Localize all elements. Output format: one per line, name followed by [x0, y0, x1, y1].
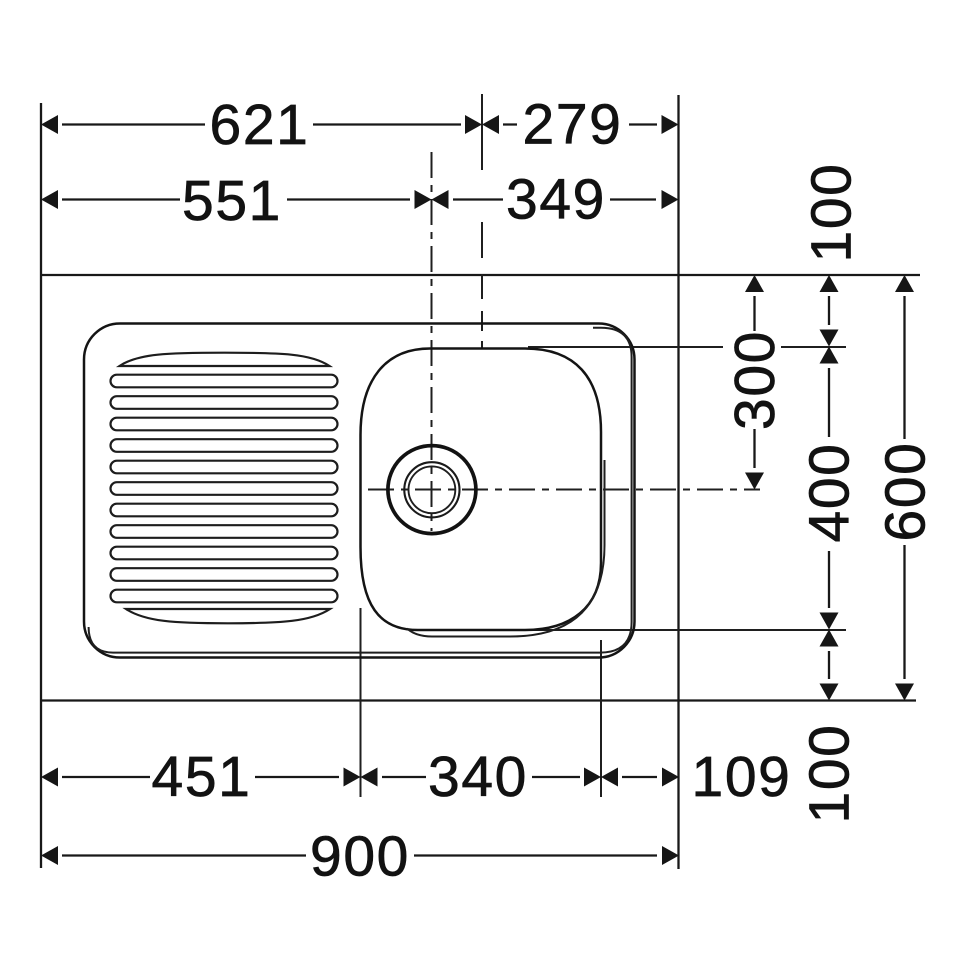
- dimension line 621: [62, 123, 461, 125]
- drainer rib 5: [111, 439, 338, 452]
- drainer rib 13 (arc bottom): [126, 609, 330, 623]
- svg-text:279: 279: [523, 93, 623, 157]
- arrowheads horizontal dims: [41, 115, 58, 134]
- svg-text:300: 300: [723, 330, 787, 430]
- drainer rib 2: [111, 375, 338, 388]
- drain outer circle: [388, 446, 476, 534]
- extension line x=482 (621/279 split): [481, 94, 483, 348]
- vertical centerline: [431, 152, 433, 531]
- horizontal centerline: [368, 489, 760, 491]
- svg-text:100: 100: [798, 724, 862, 824]
- dimension line 100 bottom: [828, 651, 830, 679]
- dimension line 451: [62, 776, 339, 778]
- extension line bowl bottom edge: [500, 629, 846, 631]
- dimension line 349: [453, 198, 656, 200]
- dimension line 340: [382, 776, 580, 778]
- arrowheads vertical dims: [745, 275, 764, 292]
- dimension line 900: [62, 854, 657, 856]
- svg-text:900: 900: [310, 825, 410, 889]
- worktop top edge line: [41, 274, 920, 276]
- sink outline: [84, 324, 635, 658]
- sink inner rim line: [89, 328, 632, 653]
- extension line bowl left: [360, 608, 362, 797]
- svg-text:600: 600: [874, 442, 938, 542]
- dimension line 551: [62, 198, 410, 200]
- svg-text:451: 451: [152, 745, 252, 809]
- worktop bottom edge line: [41, 699, 916, 701]
- dimension line 279: [503, 123, 657, 125]
- svg-text:400: 400: [798, 443, 862, 543]
- svg-text:109: 109: [692, 745, 792, 809]
- drainer rib 8: [111, 504, 338, 517]
- dimension line 109: [622, 776, 657, 778]
- drainer rib 6: [111, 461, 338, 474]
- dimension line 100 top: [828, 296, 830, 325]
- dimension line 400: [828, 368, 830, 608]
- right extension line (worktop right edge): [677, 95, 679, 869]
- svg-text:551: 551: [182, 169, 282, 233]
- drainer rib 4: [111, 418, 338, 431]
- drainer rib 9: [111, 525, 338, 538]
- drain inner circle A: [404, 462, 459, 517]
- drainer rib 10: [111, 547, 338, 560]
- extension line bowl top edge: [528, 346, 846, 348]
- svg-text:100: 100: [800, 163, 864, 263]
- drainer rib 1 (arc top): [120, 353, 330, 366]
- drainer rib 3: [111, 396, 338, 409]
- left extension line: [40, 103, 42, 868]
- bowl outline: [361, 349, 602, 631]
- drainer rib 12: [111, 590, 338, 603]
- svg-text:340: 340: [428, 745, 528, 809]
- drainer rib 7: [111, 482, 338, 495]
- dimension line 600: [903, 296, 905, 679]
- svg-text:349: 349: [506, 168, 606, 232]
- drainer rib 11: [111, 568, 338, 581]
- dimension line 300: [753, 296, 755, 468]
- bowl shadow edge: [407, 460, 605, 637]
- drain inner circle B: [409, 466, 456, 513]
- extension line bowl right: [600, 640, 602, 797]
- svg-text:621: 621: [210, 93, 310, 157]
